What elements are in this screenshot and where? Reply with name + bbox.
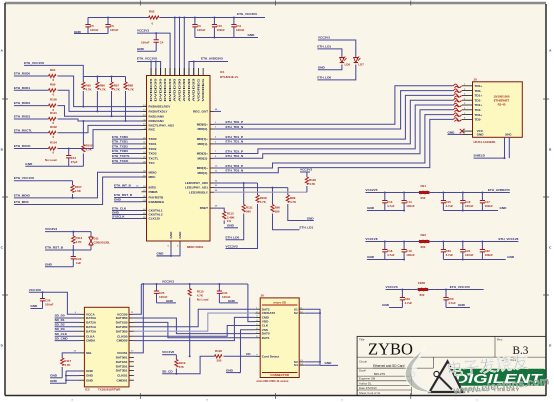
wire ETH_TD2_N xyxy=(214,110,454,159)
title block frame xyxy=(357,336,546,395)
wire CMD bus xyxy=(134,317,255,340)
junction R98 bottom xyxy=(125,120,127,122)
IC1 left pin names xyxy=(149,105,175,221)
svg-text:R99: R99 xyxy=(50,82,56,86)
svg-text:PMEB: PMEB xyxy=(149,190,159,194)
svg-text:600: 600 xyxy=(420,293,425,297)
wire GND rail VCC1V0 left xyxy=(389,307,402,309)
junction pullup rail xyxy=(111,76,113,78)
junction GND pins xyxy=(170,255,172,257)
wire ETH_TD3_N xyxy=(214,119,454,172)
svg-text:VCC1V8: VCC1V8 xyxy=(365,237,377,241)
svg-text:J9: J9 xyxy=(474,78,478,82)
svg-text:VCC2V5: VCC2V5 xyxy=(365,188,377,192)
junction S3 xyxy=(319,361,321,363)
wire VCC3V3 sd rail xyxy=(141,283,248,285)
node ETH_TXD0 xyxy=(112,135,142,139)
svg-text:ETH_TXCTL: ETH_TXCTL xyxy=(112,154,130,158)
svg-text:CLK125: CLK125 xyxy=(149,217,161,221)
node ETH_RXD2 xyxy=(14,101,44,105)
svg-text:ETH_RST_B: ETH_RST_B xyxy=(45,246,64,250)
node ETH_LD1 xyxy=(300,226,314,230)
node ETH_TD3_N label xyxy=(226,169,244,173)
resistor R90 xyxy=(271,188,280,214)
svg-text:RJ-45: RJ-45 xyxy=(498,103,506,107)
wire GND rail VCC1V0 right xyxy=(446,307,470,309)
svg-text:100nF: 100nF xyxy=(236,28,245,32)
svg-text:MDC: MDC xyxy=(149,175,157,179)
svg-text:VCCB1: VCCB1 xyxy=(117,351,128,355)
wire ETH_LD1 to LD6 xyxy=(317,49,342,56)
resistor R106 xyxy=(305,172,316,192)
logo beyond theory text xyxy=(463,387,520,393)
svg-text:MDI[1]+: MDI[1]+ xyxy=(197,137,208,141)
svg-text:HFJ11-1G01ERL: HFJ11-1G01ERL xyxy=(474,140,497,144)
capacitor C14 xyxy=(402,193,407,211)
svg-text:ETH_INT_B: ETH_INT_B xyxy=(114,183,132,187)
wire ETH_TD2_P xyxy=(214,105,454,154)
svg-text:MDI[2]-: MDI[2]- xyxy=(198,156,208,160)
svg-text:GND: GND xyxy=(169,231,173,239)
node SD_D0 xyxy=(55,314,80,318)
svg-text:Circuit: Circuit xyxy=(359,360,367,364)
svg-text:GND: GND xyxy=(307,216,315,220)
wire DVDD bundle 3 xyxy=(183,18,185,76)
svg-text:GND: GND xyxy=(367,255,375,259)
resistor R108 xyxy=(256,183,267,204)
no-load note C12 xyxy=(45,158,57,162)
capacitor C22 labels xyxy=(485,249,494,257)
wire R90 to ETH_LD1 xyxy=(273,214,300,230)
svg-text:DAT2B0: DAT2B0 xyxy=(116,325,128,329)
ground GND VCC1V0 right xyxy=(458,303,466,307)
svg-text:600: 600 xyxy=(421,245,426,249)
svg-text:SD_CMD: SD_CMD xyxy=(55,336,69,340)
node SD_CLK xyxy=(55,332,80,336)
IC1 right pin names xyxy=(185,110,209,211)
capacitor C18 labels xyxy=(387,249,395,257)
svg-text:4.7K: 4.7K xyxy=(309,182,316,186)
node ETH_CLK xyxy=(112,206,142,210)
wire GND rail VCC1V8 right xyxy=(443,259,505,261)
capacitor C15 labels xyxy=(446,200,454,208)
connector J6 left pin stubs xyxy=(255,309,260,356)
IC1 top pin stubs xyxy=(151,68,203,76)
resistor R93 xyxy=(149,10,160,26)
wire ETH_RXCTL to IC xyxy=(62,125,142,132)
svg-text:4.7K: 4.7K xyxy=(128,88,135,92)
node SHIELD xyxy=(474,154,505,158)
svg-text:CMDA: CMDA xyxy=(86,339,96,343)
svg-text:FB2: FB2 xyxy=(421,233,427,237)
node SD_D1 xyxy=(55,318,80,322)
node ETH_TXD1 xyxy=(112,140,142,144)
junction shield xyxy=(504,157,506,159)
resistor R115 labels xyxy=(197,289,209,301)
svg-text:ETH_AVDD2V5: ETH_AVDD2V5 xyxy=(488,188,510,192)
junction C6 top xyxy=(107,17,109,19)
svg-text:SD_D2: SD_D2 xyxy=(55,323,65,327)
svg-text:No Load: No Load xyxy=(197,297,209,301)
node ETH_MDIO xyxy=(14,194,31,198)
svg-text:4.7K: 4.7K xyxy=(290,200,297,204)
svg-text:GND: GND xyxy=(166,299,174,303)
node ETH_TD2_P label xyxy=(226,149,244,153)
node ETH_TD2_N label xyxy=(226,154,244,158)
junction xyxy=(65,379,67,381)
junction C4 top xyxy=(155,32,157,34)
svg-text:DAT0A: DAT0A xyxy=(86,316,97,320)
svg-text:AVDD30: AVDD30 xyxy=(182,78,186,102)
node ETH_LD1 led xyxy=(317,44,331,48)
wire ETH_TD1_P xyxy=(214,95,454,139)
node ETH_RXCTL xyxy=(14,128,44,132)
node VCC3V3 top xyxy=(137,29,149,33)
svg-text:4.7uF: 4.7uF xyxy=(446,204,454,208)
node ETH_RXCK xyxy=(14,144,44,148)
wire VCC3V3 to LD7 xyxy=(318,40,356,56)
IC1 reference label xyxy=(220,70,239,79)
junction C14 top xyxy=(403,192,405,194)
wire R111 to ETH_LD0 xyxy=(226,214,244,240)
junction xyxy=(193,61,195,63)
IC3 left pin names xyxy=(86,312,97,382)
svg-text:4.7uF: 4.7uF xyxy=(446,253,454,257)
wire top 3V0 rail xyxy=(88,17,265,19)
capacitor C17 xyxy=(480,193,485,211)
wire ETH_RXCK to IC xyxy=(62,130,142,149)
wire VCC1V8 rail xyxy=(365,241,518,243)
resistor R97 xyxy=(110,77,121,117)
wire LD7 to ETH_LD0 xyxy=(317,66,355,80)
svg-text:100nF: 100nF xyxy=(197,28,206,32)
node ETH_MDC xyxy=(14,200,30,204)
resistor R113 labels xyxy=(227,212,236,224)
svg-text:MDI[2]+: MDI[2]+ xyxy=(197,152,208,156)
watermark elecfans stamp xyxy=(445,349,550,397)
svg-text:SD_CLK: SD_CLK xyxy=(55,332,68,336)
svg-text:4.7uF: 4.7uF xyxy=(387,253,395,257)
IC1 bottom GND pin names xyxy=(169,231,182,239)
svg-text:DAT3A: DAT3A xyxy=(86,329,97,333)
svg-text:SD_D3: SD_D3 xyxy=(55,327,65,331)
svg-text:LED2/RXDLY: LED2/RXDLY xyxy=(189,190,209,194)
svg-text:ETH_RXD2: ETH_RXD2 xyxy=(14,101,30,105)
junction R119 bottom xyxy=(175,373,177,375)
junction R115 bottom xyxy=(189,355,191,357)
zone numbers bottom xyxy=(71,399,478,401)
junction xyxy=(155,61,157,63)
svg-text:CLKA: CLKA xyxy=(86,334,95,338)
junction C34 top xyxy=(218,283,220,285)
resistor R98 xyxy=(124,77,135,122)
svg-text:ETH_LD1: ETH_LD1 xyxy=(300,226,314,230)
ground GND C34 xyxy=(219,299,238,303)
svg-text:GND: GND xyxy=(157,252,165,256)
connector J6 shield pins xyxy=(294,307,304,367)
svg-text:100nF: 100nF xyxy=(141,41,150,45)
junction xyxy=(179,17,181,19)
node ETH_RXD3 xyxy=(14,115,44,119)
svg-text:LED0/PHY_AD0: LED0/PHY_AD0 xyxy=(185,181,208,185)
junction C17 top xyxy=(481,192,483,194)
svg-text:ETH_TD1_N: ETH_TD1_N xyxy=(226,140,244,144)
ground GND IC1 bottom xyxy=(157,252,172,256)
svg-text:ETH_VCC1V0: ETH_VCC1V0 xyxy=(450,285,470,289)
zone ticks bottom xyxy=(140,393,411,399)
svg-text:ETH_VCC1V8: ETH_VCC1V8 xyxy=(24,61,44,65)
svg-text:GND: GND xyxy=(448,130,456,134)
resistor R104 xyxy=(44,141,62,155)
svg-text:TD0+: TD0+ xyxy=(475,84,483,88)
svg-text:TD3-: TD3- xyxy=(475,118,482,122)
svg-text:GND: GND xyxy=(50,379,58,383)
svg-text:DAT3B1: DAT3B1 xyxy=(116,369,128,373)
junction C16 top xyxy=(462,192,464,194)
svg-text:IC1: IC1 xyxy=(220,70,225,74)
svg-text:ETH_TD2_P: ETH_TD2_P xyxy=(226,149,244,153)
IC3 reference label xyxy=(85,388,121,392)
logo Digilent triangle xyxy=(410,362,462,393)
node ETH_RST_B source xyxy=(45,246,64,250)
capacitor C16 xyxy=(460,193,465,211)
svg-text:DVDD30: DVDD30 xyxy=(168,78,172,102)
svg-text:ETH_TD1_P: ETH_TD1_P xyxy=(226,135,244,139)
capacitor C50 xyxy=(443,290,448,308)
svg-text:ETH_VCC1V8: ETH_VCC1V8 xyxy=(14,176,34,180)
svg-text:600: 600 xyxy=(421,196,426,200)
resistor R126 xyxy=(210,349,228,363)
node ETH_TD0_N label xyxy=(226,125,244,129)
svg-text:SHIELD: SHIELD xyxy=(474,154,486,158)
svg-text:4.7uF: 4.7uF xyxy=(387,204,395,208)
resistor R95 xyxy=(82,77,93,107)
junction xyxy=(174,17,176,19)
node ETH_TXD3 xyxy=(112,149,142,153)
svg-text:DAT1B1: DAT1B1 xyxy=(116,360,128,364)
resistor R102 xyxy=(44,125,62,139)
svg-text:TXCTL: TXCTL xyxy=(149,156,159,160)
wire ETH_RXD3 to IC xyxy=(62,119,142,121)
svg-text:CDBU0130L: CDBU0130L xyxy=(94,241,111,245)
wire RSET xyxy=(214,208,224,211)
svg-text:1%: 1% xyxy=(227,219,232,223)
wire IC3 GND pins xyxy=(50,371,80,383)
svg-text:SD_D0: SD_D0 xyxy=(55,314,65,318)
ground GND C25 xyxy=(157,299,177,303)
resistor R100 xyxy=(44,98,62,112)
junction pullup rail xyxy=(96,76,98,78)
IC3 left pin stubs xyxy=(80,314,85,380)
ground GND RX xyxy=(25,162,83,166)
svg-text:DVDD30: DVDD30 xyxy=(158,78,162,102)
capacitor C22 xyxy=(480,242,485,260)
svg-text:GND: GND xyxy=(458,303,466,307)
node VCC1V8 sd xyxy=(29,288,41,292)
connector J6 microSD body xyxy=(260,298,299,378)
svg-text:GND: GND xyxy=(114,198,122,202)
svg-text:TD3+: TD3+ xyxy=(475,113,483,117)
svg-text:AVDD30: AVDD30 xyxy=(177,78,181,102)
IC1 GND pin numbers xyxy=(168,246,180,248)
svg-text:Card Detect: Card Detect xyxy=(262,354,279,358)
ground GND leds xyxy=(318,65,326,69)
connector J6 part number xyxy=(257,379,289,383)
resistor R111 xyxy=(242,183,253,214)
capacitor C20 xyxy=(441,242,446,260)
resistor R89 xyxy=(286,188,297,204)
wire ETH_AVDD2V5 ic top xyxy=(189,62,228,76)
svg-text:R94: R94 xyxy=(50,68,56,72)
svg-text:SYSCLK: SYSCLK xyxy=(112,214,125,218)
svg-text:ETH_VCC3V0: ETH_VCC3V0 xyxy=(237,12,257,16)
junction gnd left xyxy=(403,210,405,212)
svg-text:ETH_VCC1V8: ETH_VCC1V8 xyxy=(498,237,518,241)
title block texts xyxy=(359,338,529,395)
junction R97 bottom xyxy=(111,115,113,117)
pin number 20 INTB xyxy=(136,185,139,187)
svg-text:VCC3V3: VCC3V3 xyxy=(137,29,149,33)
svg-text:Sheet 3 out of 11: Sheet 3 out of 11 xyxy=(359,391,381,395)
node ETH_VCC1V8 ic top xyxy=(137,56,157,60)
node CD label xyxy=(246,352,251,356)
zone ticks sides xyxy=(2,99,549,295)
IC1 left pin numbers xyxy=(143,105,146,219)
IC1 top pin names DVDD AVDD xyxy=(149,77,205,101)
svg-text:ETH_TXD2: ETH_TXD2 xyxy=(112,144,128,148)
svg-text:ETH_TXD3: ETH_TXD3 xyxy=(112,149,128,153)
junction C19 top xyxy=(403,241,405,243)
connector J9 pin stubs xyxy=(462,86,473,135)
svg-text:TXD1: TXD1 xyxy=(149,142,157,146)
wire LD6 to GND xyxy=(318,66,342,70)
ground GND VSS xyxy=(226,369,241,373)
IC3 pin numbers xyxy=(74,312,135,353)
svg-text:500-279: 500-279 xyxy=(374,372,385,376)
node VCC1V0 xyxy=(386,285,398,289)
node VCC3V3 sd xyxy=(162,280,174,284)
svg-text:SHG: SHG xyxy=(505,133,512,137)
wire LED1 strap xyxy=(214,187,288,189)
wire pullup rail xyxy=(83,76,125,78)
svg-text:CMDB0: CMDB0 xyxy=(116,339,127,343)
svg-text:VDDREG: VDDREG xyxy=(201,77,205,101)
capacitor C19 labels xyxy=(406,249,415,257)
capacitor C19 xyxy=(402,242,407,260)
svg-text:VCC3V3: VCC3V3 xyxy=(226,244,238,248)
svg-text:100nF: 100nF xyxy=(45,303,54,307)
ground GND reset xyxy=(45,263,73,267)
capacitor C25 body xyxy=(154,284,159,303)
node ETH_AVDD2V5 xyxy=(488,188,510,192)
capacitor C13 labels xyxy=(387,200,395,208)
wire VCCB0 feed xyxy=(134,284,141,314)
ground GND C4 xyxy=(137,47,156,51)
svg-text:TD2+: TD2+ xyxy=(475,103,483,107)
svg-text:100nF: 100nF xyxy=(485,204,494,208)
svg-text:4.7K: 4.7K xyxy=(64,363,71,367)
svg-text:ETH_TD0_N: ETH_TD0_N xyxy=(226,125,244,129)
svg-text:ETH_LD1: ETH_LD1 xyxy=(317,44,331,48)
resistor R117 xyxy=(61,357,72,378)
ground GND C9C11 xyxy=(248,33,256,37)
wire VCC3V3 to pin xyxy=(137,33,170,75)
svg-text:TXC: TXC xyxy=(149,161,156,165)
svg-text:VCC3V3: VCC3V3 xyxy=(318,36,330,40)
junction C12 top xyxy=(68,148,70,150)
svg-text:4.7uF: 4.7uF xyxy=(405,301,413,305)
node ETH_TD1_N label xyxy=(226,140,244,144)
ferrite bead FB50 xyxy=(412,281,434,297)
svg-text:GND: GND xyxy=(477,133,485,137)
resistor R107 xyxy=(71,181,82,198)
wire GND rail VCC2V5 right xyxy=(443,210,498,212)
svg-text:CD: CD xyxy=(246,352,251,356)
IC3 TXS02612 body xyxy=(84,307,129,387)
zone ticks top xyxy=(140,1,411,6)
junction gnd xyxy=(462,259,464,261)
svg-text:GND: GND xyxy=(86,378,94,382)
ground GND R117 xyxy=(50,374,62,378)
junction VCCB1 tap xyxy=(142,283,144,285)
wire IC1 GND pins xyxy=(157,248,181,256)
resistor R101 xyxy=(44,111,62,125)
wire CD to connector xyxy=(228,355,255,357)
capacitor C20 labels xyxy=(446,249,454,257)
node ETH_TXCK xyxy=(112,159,142,163)
ground GND C26 xyxy=(30,304,42,308)
junction cap top xyxy=(194,17,196,19)
svg-text:GND: GND xyxy=(226,369,234,373)
svg-text:ETH_RXCTL: ETH_RXCTL xyxy=(14,128,32,132)
node SD_D3 xyxy=(55,327,80,331)
svg-text:CMDB1: CMDB1 xyxy=(116,378,127,382)
resistor R113 xyxy=(223,211,226,224)
connector J9 reference xyxy=(474,78,478,82)
svg-text:100nF: 100nF xyxy=(90,28,99,32)
wire ETH_MDIO xyxy=(14,172,142,198)
svg-text:S4: S4 xyxy=(294,363,298,367)
svg-text:4.7K: 4.7K xyxy=(86,148,93,152)
svg-text:DVDD30: DVDD30 xyxy=(149,78,153,102)
svg-text:REG_OUT: REG_OUT xyxy=(193,110,208,114)
connector J9 part number xyxy=(474,140,497,144)
svg-text:MDIO: MDIO xyxy=(149,170,158,174)
svg-text:DAT2B1: DAT2B1 xyxy=(116,364,128,368)
no-connect X on VCC pin xyxy=(460,129,464,133)
ferrite bead FB2 xyxy=(413,233,435,249)
junction R107 bottom xyxy=(72,197,74,199)
svg-text:RXD1/AN0: RXD1/AN0 xyxy=(149,114,165,118)
junction R114 bottom xyxy=(72,249,74,251)
svg-text:Engineer SM: Engineer SM xyxy=(359,377,376,381)
svg-text:ETH_TD3_N: ETH_TD3_N xyxy=(226,169,244,173)
junction R96 bottom xyxy=(96,110,98,112)
junction R114 top xyxy=(72,231,74,233)
svg-text:GND: GND xyxy=(248,33,256,37)
svg-text:RXC: RXC xyxy=(149,128,156,132)
svg-text:100nF: 100nF xyxy=(465,204,474,208)
wire DAT3 bus xyxy=(134,313,255,331)
svg-text:RXD2/AN1: RXD2/AN1 xyxy=(149,119,165,123)
wire S1 S2 shield to GND xyxy=(304,309,320,365)
connector J6 micro SD label xyxy=(262,300,297,305)
capacitor C6 body xyxy=(105,18,110,34)
svg-text:SD_CD: SD_CD xyxy=(162,369,173,373)
svg-text:GND: GND xyxy=(50,374,58,378)
capacitor C49 xyxy=(400,290,405,308)
svg-text:RSET: RSET xyxy=(200,206,208,210)
